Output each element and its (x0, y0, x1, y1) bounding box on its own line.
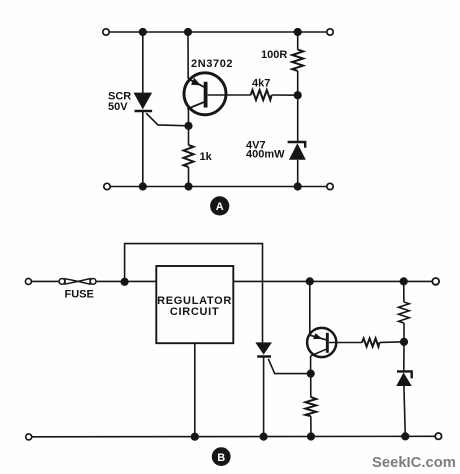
terminal B top-right (432, 278, 439, 285)
svg-text:100R: 100R (261, 49, 287, 61)
wire 100R to node (297, 71, 299, 95)
wire bottom rail B (32, 435, 436, 438)
node collector gate junction A (184, 122, 192, 130)
wire collector to node (187, 109, 189, 126)
wire SCR anode (142, 32, 144, 93)
terminal bottom-left A (104, 183, 110, 189)
zener D2 4V7 400mW (288, 142, 306, 160)
wire thyristor gate (268, 359, 310, 374)
wire box right to rail (233, 280, 403, 282)
node top rail A middle (184, 28, 192, 36)
node top rail A right (294, 28, 302, 36)
wire node to resistor B (310, 374, 312, 398)
regulator box U1 (156, 266, 233, 343)
node right branch top (400, 277, 408, 285)
node bottom rail B box (191, 433, 199, 441)
wire SCR gate (146, 113, 188, 126)
terminal top-left A (103, 29, 109, 35)
wire rail to terminal B top-right (404, 280, 432, 282)
terminal B bottom-left (26, 434, 32, 440)
wire top rail B left (31, 280, 59, 282)
resistor R6 (305, 397, 316, 416)
wire bypass over box (125, 244, 263, 343)
svg-text:2N3702: 2N3702 (191, 58, 233, 70)
wire collector to node B (310, 356, 312, 374)
badge B (212, 447, 231, 466)
transistor Q2 (307, 328, 336, 357)
wire base lead Q1 (208, 94, 251, 96)
wire 4k7 to right branch (272, 94, 298, 96)
wire 1k to bottom rail (188, 167, 190, 187)
node transistor B top (306, 277, 314, 285)
node bottom rail A right (294, 182, 302, 190)
wire thyristor cathode (263, 358, 265, 437)
node right branch middle (400, 338, 408, 346)
node 4k7 right (294, 91, 302, 99)
wire zener to bottom rail (404, 386, 405, 436)
node bottom rail A left (139, 182, 147, 190)
node top rail A left (139, 28, 147, 36)
node bottom rail B thyristor (260, 433, 268, 441)
terminal B bottom-right (435, 433, 441, 439)
node collector gate junction B (307, 370, 315, 378)
transistor Q1 2N3702 (184, 73, 226, 115)
svg-text:REGULATOR: REGULATOR (157, 295, 232, 307)
resistor R3 1k (184, 145, 194, 167)
wire SCR cathode (142, 112, 144, 187)
SCR D1 50V (134, 93, 153, 111)
resistor R5 (362, 338, 379, 346)
wire resistor to right branch (379, 341, 404, 344)
fuse F1 (59, 279, 96, 285)
node bottom rail A middle (184, 182, 192, 190)
svg-text:50V: 50V (108, 101, 128, 113)
wire node to zener A (297, 95, 299, 141)
svg-text:400mW: 400mW (246, 148, 285, 160)
resistor R4 (399, 302, 410, 323)
wire node to zener B (403, 342, 405, 371)
wire top rail A (109, 31, 327, 33)
resistor R2 4k7 (251, 90, 272, 100)
svg-text:FUSE: FUSE (65, 288, 94, 300)
node bottom rail B zener (401, 432, 409, 440)
zener D3 (396, 371, 412, 386)
badge A (210, 196, 229, 215)
svg-text:B: B (217, 452, 225, 464)
wire box bottom to rail (194, 343, 196, 436)
wire transistor B emitter top (309, 281, 311, 335)
wire top to 100R (297, 32, 299, 50)
svg-text:1k: 1k (200, 151, 213, 163)
wire transistor A emitter top (187, 32, 189, 79)
thyristor SCR2 (255, 342, 272, 356)
wire zener to bottom rail (297, 160, 299, 187)
wire resistor to bottom rail B (310, 416, 312, 437)
svg-text:CIRCUIT: CIRCUIT (170, 306, 220, 318)
svg-text:4k7: 4k7 (252, 77, 270, 89)
wire bottom rail A (110, 186, 327, 188)
svg-text:A: A (216, 201, 224, 213)
terminal B top-left (25, 278, 31, 284)
wire base lead Q2 (329, 342, 362, 344)
wire right branch top to resistor (403, 281, 405, 302)
node bottom rail B resistor (307, 432, 315, 440)
wire fuse to box (96, 280, 156, 282)
node bypass takeoff (121, 278, 129, 286)
terminal bottom-right A (327, 183, 333, 189)
resistor R1 100R (292, 50, 303, 71)
wire node to 1k (188, 126, 190, 145)
terminal top-right A (327, 29, 333, 35)
svg-text:SeekIC.com: SeekIC.com (372, 455, 456, 471)
wire resistor to node (403, 323, 405, 342)
